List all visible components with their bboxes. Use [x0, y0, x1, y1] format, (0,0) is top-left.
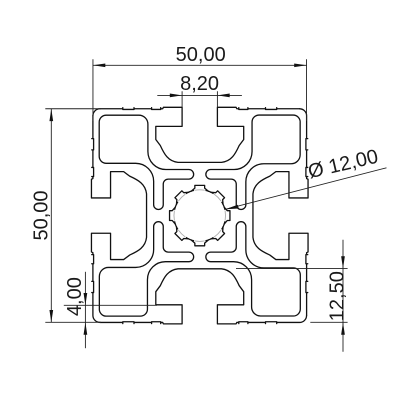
core bore notch 1 — [170, 207, 176, 224]
core bore notch 6 — [211, 227, 225, 241]
dim 8,20 dimension line with tails — [157, 94, 242, 96]
profile outer contour with T-slot cavities (4 rotated sides) — [91, 107, 308, 324]
svg-text:50,00: 50,00 — [31, 190, 53, 240]
core bore mouth openings — [174, 190, 226, 242]
svg-text:4,00: 4,00 — [64, 277, 86, 316]
svg-text:50,00: 50,00 — [176, 44, 226, 66]
top side face and slot cavity — [93, 107, 300, 162]
svg-text:12,50: 12,50 — [327, 271, 349, 321]
arrowhead leader diameter — [225, 205, 238, 210]
dim 50,00 top dimension line — [93, 64, 307, 66]
arrowhead 4,00 upper — [84, 293, 88, 305]
arrowhead 12,50 upper — [341, 256, 345, 268]
dim 8,20 extension lines — [182, 91, 217, 107]
dim 50,00 left extension lines — [45, 109, 101, 323]
bottom side face and slot cavity — [100, 269, 307, 324]
dim 50,00 top extension lines — [93, 59, 307, 121]
arrowhead 4,00 lower — [84, 322, 88, 334]
dim 12,50 extension lines — [236, 269, 348, 323]
dim 12,50 dimension line — [342, 240, 344, 352]
top-left quadrant cavity — [99, 115, 193, 209]
bottom-left quadrant cavity — [99, 222, 193, 316]
arrowhead 8,20 right — [217, 94, 229, 98]
right side face and slot cavity — [253, 109, 308, 316]
arrowhead 50,00 top left — [93, 63, 105, 67]
core bore notch 7 — [191, 240, 208, 246]
arrowhead 50,00 left top — [49, 109, 53, 121]
core bore notch 8 — [175, 227, 189, 241]
arrowhead 12,50 lower — [341, 322, 345, 334]
dimension layer — [45, 59, 386, 352]
svg-text:8,20: 8,20 — [180, 73, 219, 95]
dim 4,00 dimension line — [84, 272, 86, 348]
arrowhead 8,20 left — [170, 94, 182, 98]
bottom-right quadrant cavity — [206, 222, 300, 316]
central bore: construction circle (diameter 12) — [174, 190, 226, 242]
leader line diameter 12,00 — [225, 168, 386, 210]
left side face and slot cavity — [91, 116, 146, 323]
arrowhead 50,00 left bottom — [49, 310, 53, 322]
core bore notch 3 — [191, 185, 208, 191]
arrowhead 50,00 top right — [294, 63, 306, 67]
core bore notch 4 — [211, 191, 225, 205]
dim 4,00 extension line — [64, 304, 157, 306]
core bore notch 5 — [224, 207, 230, 224]
dim 50,00 left dimension line — [50, 109, 52, 323]
top-right quadrant cavity — [206, 115, 300, 209]
core bore notch 2 — [175, 191, 189, 205]
